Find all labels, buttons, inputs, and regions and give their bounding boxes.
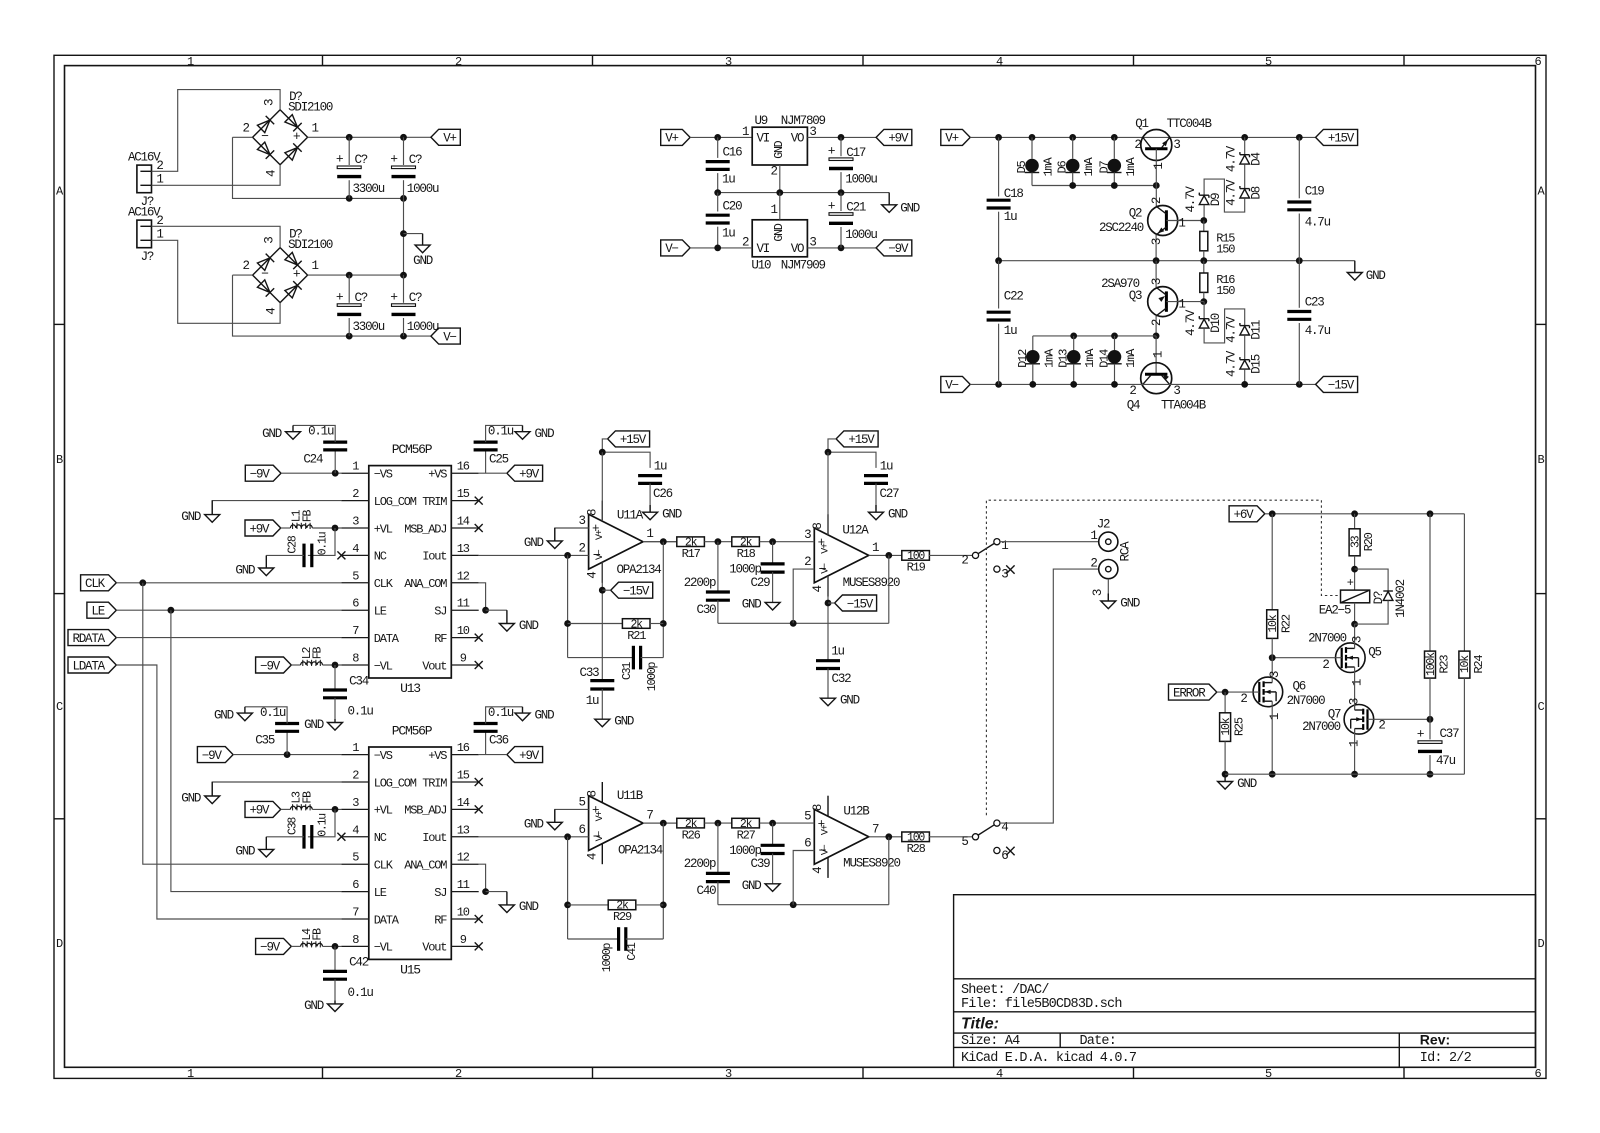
wire U11 noninverting to GND [555,528,589,541]
svg-text:GND: GND [519,619,539,633]
power flag -9V (C35 side) [197,747,233,763]
svg-text:CLK: CLK [374,859,394,873]
ground GND (U11 +in) [547,528,562,549]
wire DAC Iout to U11 inverting input [479,836,589,838]
svg-text:R28: R28 [907,842,926,856]
svg-text:J2: J2 [1097,518,1110,532]
capacitor C27 1u [864,476,888,484]
svg-text:C24: C24 [303,452,323,466]
svg-text:Q2: Q2 [1129,206,1142,220]
wire DAC Iout to U11 inverting input [479,554,589,556]
wire mid GND rail (discrete reg) [999,260,1355,262]
wire +VS pin16 to +9V [479,754,507,756]
svg-text:R29: R29 [613,910,632,924]
ground GND (C27) [869,505,884,520]
junction [715,538,722,545]
svg-text:6: 6 [352,878,359,892]
resistor R21 2k [568,623,623,625]
svg-text:1: 1 [742,125,749,139]
zener D11 4.7V [1240,323,1250,335]
capacitor C25 0.1u [485,450,487,473]
svg-text:GND: GND [614,715,634,729]
wire J2 pin2 to bridge2 pin3 [152,226,281,247]
svg-text:V+: V+ [595,529,606,540]
svg-text:1: 1 [156,173,163,187]
ground GND (C29) [765,602,780,610]
junction [564,902,571,909]
svg-text:2200p: 2200p [684,576,716,590]
svg-text:C27: C27 [880,487,900,501]
svg-text:GND: GND [262,427,282,441]
svg-text:4.7V: 4.7V [1184,186,1198,213]
svg-text:+: + [1347,576,1354,590]
wire RDATA to U13 DATA [116,637,341,639]
svg-text:OPA2134: OPA2134 [616,563,661,577]
resistor R26 2k [677,818,705,828]
svg-text:12: 12 [457,851,470,865]
svg-text:Date:: Date: [1080,1034,1117,1049]
svg-text:TRIM: TRIM [422,776,447,790]
svg-text:R17: R17 [682,547,701,561]
wire J1 pin1 to bridge1 pin4 [152,165,281,186]
svg-text:5: 5 [352,851,359,865]
wire U12 output [869,554,903,556]
svg-text:+9V: +9V [519,749,540,763]
svg-text:SJ: SJ [434,886,446,900]
svg-text:RF: RF [434,913,447,927]
junction [714,245,721,252]
svg-text:1: 1 [352,460,359,474]
junction [769,820,776,827]
svg-text:2: 2 [1150,197,1164,204]
svg-text:LOG_COM: LOG_COM [374,776,417,790]
ground GND (C33) [595,719,610,727]
wire U11 output to R17 [643,541,677,543]
power flag +9V (+VL L3) [245,801,281,817]
svg-text:R19: R19 [907,561,926,575]
svg-text:J?: J? [141,250,154,264]
transistor Q5 2N7000 (MOSFET) [1354,624,1356,643]
capacitor C41 1000p (series) [568,938,619,940]
op-amp U11B OPA2134 [589,796,643,851]
svg-text:3: 3 [1173,138,1180,152]
svg-text:V−: V− [443,330,456,344]
svg-text:U13: U13 [400,681,420,696]
svg-text:ANA_COM: ANA_COM [404,577,447,591]
input label RDATA [68,630,116,646]
svg-text:CLK: CLK [85,577,106,591]
junction [346,272,353,279]
svg-text:EA2−5: EA2−5 [1319,604,1351,618]
svg-text:9: 9 [460,933,467,947]
junction [1069,134,1076,141]
svg-text:3: 3 [1173,384,1180,398]
wire V+ to U9 VI [690,136,752,138]
svg-text:D10: D10 [1209,313,1223,333]
svg-text:MUSES8920: MUSES8920 [843,857,900,871]
svg-text:7: 7 [872,822,879,836]
ground GND (discrete reg) [1347,261,1362,280]
svg-text:KiCad E.D.A. kicad 4.0.7: KiCad E.D.A. kicad 4.0.7 [961,1051,1137,1066]
junction [995,257,1002,264]
svg-text:2N7000: 2N7000 [1287,694,1326,708]
svg-text:4.7V: 4.7V [1184,309,1198,336]
svg-text:D13: D13 [1057,349,1071,368]
svg-text:Sheet: /DAC/: Sheet: /DAC/ [961,983,1049,998]
svg-text:2: 2 [242,259,249,273]
wire bridge1 minus to cap bottom rail [233,136,253,138]
svg-text:2: 2 [352,769,359,783]
svg-text:3: 3 [809,125,816,139]
svg-text:C?: C? [355,291,368,305]
svg-text:R24: R24 [1472,655,1486,674]
svg-text:1: 1 [1351,679,1365,686]
svg-text:0.1u: 0.1u [317,814,330,837]
wire switch throw4 to RCA pin2 [1000,569,1099,823]
svg-text:1: 1 [1178,217,1185,231]
svg-text:D?: D? [1372,591,1386,604]
svg-text:2200p: 2200p [684,857,716,871]
wire Q5 source to Q7 drain [1354,673,1356,711]
svg-text:6: 6 [804,837,811,851]
svg-text:1N4002: 1N4002 [1394,579,1408,618]
power flag +9V (+VS C25) [507,465,543,481]
junction [838,245,845,252]
svg-text:2: 2 [1129,384,1136,398]
svg-text:2: 2 [1240,692,1247,706]
zener D15 4.7V [1244,335,1246,359]
svg-text:2: 2 [242,121,249,135]
svg-text:2: 2 [961,553,968,567]
svg-text:3: 3 [725,55,732,69]
wire ANA_COM pin12 to SJ pin11 [479,864,486,891]
junction [1351,621,1358,628]
svg-text:DATA: DATA [374,632,400,646]
svg-text:1mA: 1mA [1083,348,1097,368]
capacitor C24 0.1u [334,450,336,473]
svg-text:GND: GND [304,718,324,732]
svg-text:SJ: SJ [434,605,446,619]
svg-text:4.7u: 4.7u [1305,324,1331,338]
svg-text:4: 4 [352,542,359,556]
power flag +9V (+VS C36) [507,747,543,763]
power flag +9V (+VL L1) [245,520,281,536]
wire switch throw1 to RCA pin1 [1000,541,1099,543]
svg-text:3: 3 [1348,698,1362,705]
CRD D14 1mA [1114,336,1116,350]
svg-text:FB: FB [312,647,325,660]
ground GND (driver) [1218,774,1233,789]
ferrite bead L1 FB [281,527,291,529]
svg-text:3: 3 [263,237,277,244]
svg-text:C20: C20 [723,199,743,213]
svg-text:R27: R27 [737,828,756,842]
wire center rail to GND and bridge2 [403,198,405,275]
wire ERROR to Q6 gate [1217,691,1260,693]
svg-text:1: 1 [770,203,777,217]
power flag +15V (U11A) [608,431,650,447]
svg-text:GND: GND [235,845,255,859]
svg-text:3: 3 [725,1067,732,1081]
svg-text:1000u: 1000u [407,320,439,334]
svg-text:1: 1 [1152,351,1166,358]
regulator U9 NJM7809 [752,127,807,165]
svg-text:100k: 100k [1425,652,1438,676]
svg-text:−VL: −VL [374,659,393,673]
capacitor C42 0.1u [334,946,336,971]
svg-text:OPA2134: OPA2134 [618,844,663,858]
svg-text:9: 9 [460,652,467,666]
capacitor C17 1000u [840,137,842,156]
junction [400,134,407,141]
svg-text:Vout: Vout [422,941,446,955]
svg-text:GND: GND [900,201,920,215]
junction [1222,689,1229,696]
transistor Q1 TTC004B [1141,130,1172,161]
transistor Q7 2N7000 (MOSFET, mirrored) [1344,705,1374,735]
svg-text:−15V: −15V [847,597,874,611]
svg-text:File: file5B0CD83D.sch: File: file5B0CD83D.sch [961,997,1122,1012]
svg-text:+15V: +15V [848,433,875,447]
svg-text:D: D [1537,937,1544,951]
svg-text:VO: VO [791,132,804,146]
svg-text:16: 16 [457,460,470,474]
ferrite bead L2 FB [291,664,300,666]
wire bridge2 plus rail [308,274,404,276]
svg-text:V−: V− [945,379,958,393]
connector J2 RCA [1099,532,1118,551]
resistor R15 150 [1203,221,1205,232]
capacitor C22 1u [998,261,1000,309]
svg-text:1mA: 1mA [1124,157,1138,177]
svg-text:8: 8 [811,804,825,811]
resistor R16 150 [1203,261,1205,273]
svg-text:8: 8 [352,933,359,947]
wire LE vertical to U15 [171,610,342,891]
wire D8 to D9 staircase [1204,179,1245,212]
svg-text:C32: C32 [832,672,852,686]
svg-text:3: 3 [263,99,277,106]
junction [332,662,339,669]
svg-text:−15V: −15V [623,585,650,599]
svg-text:−VS: −VS [374,468,393,482]
svg-text:GND: GND [1366,269,1386,283]
svg-text:U15: U15 [400,963,420,978]
svg-text:16: 16 [457,741,470,755]
svg-text:U11B: U11B [617,789,644,803]
power flag -15V (U11A) [611,582,653,598]
capacitor C20 1u [717,193,719,212]
wire J1 pin2 to bridge1 pin3 [152,90,281,172]
junction [1269,771,1276,778]
junction [482,607,489,614]
wire SJ to GND [486,891,507,893]
svg-text:C42: C42 [349,956,369,970]
svg-text:7: 7 [352,906,359,920]
junction [1296,257,1303,264]
svg-text:15: 15 [457,769,470,783]
svg-text:B: B [56,453,63,467]
svg-text:1: 1 [156,228,163,242]
svg-text:V−: V− [595,831,606,842]
title block [954,895,1536,1068]
junction [482,888,489,895]
junction [332,470,339,477]
junction [1070,381,1077,388]
ground GND (SJ) [499,892,514,913]
svg-text:2N7000: 2N7000 [1308,632,1347,646]
svg-text:C34: C34 [349,674,369,688]
wire Q1 collector to Q2 [1155,186,1157,207]
svg-text:NJM7909: NJM7909 [781,258,826,272]
svg-text:Size: A4: Size: A4 [961,1034,1020,1049]
svg-text:C39: C39 [751,857,771,871]
svg-text:VI: VI [757,242,770,256]
wire D10 to D11 staircase [1204,309,1245,343]
svg-text:3: 3 [352,796,359,810]
svg-text:10: 10 [457,906,470,920]
svg-text:2: 2 [1150,319,1164,326]
resistor R22 10k [1271,514,1273,610]
svg-text:11: 11 [457,597,470,611]
svg-text:D9: D9 [1209,193,1223,206]
svg-text:GND: GND [181,791,201,805]
connector J? (AC16V lower) [137,220,152,248]
IC U15 PCM56P [369,747,452,959]
svg-text:3: 3 [1001,568,1008,582]
svg-text:D14: D14 [1098,349,1112,368]
wire U9 VO to +9V [807,136,876,138]
CRD D6 1mA [1072,137,1074,158]
svg-text:12: 12 [457,569,470,583]
regulator U10 NJM7909 [752,220,807,257]
svg-text:GND: GND [742,879,762,893]
svg-text:1u: 1u [1004,210,1017,224]
capacitor C19 4.7u [1298,137,1300,198]
power flag V+ [431,129,460,145]
svg-text:0.1u: 0.1u [348,705,374,719]
ground GND (C34) [328,1000,343,1011]
op-amp U12B MUSES8920 [814,809,868,864]
wire R22 node to Q6 drain [1271,658,1273,678]
svg-text:2: 2 [804,555,811,569]
power flag V- [431,328,460,344]
wire J2 pin1 to bridge2 pin4 [152,240,281,323]
junction [769,538,776,545]
junction [1351,771,1358,778]
op-amp U12A MUSES8920 [814,528,868,583]
CRD D7 1mA [1113,137,1115,158]
svg-text:RF: RF [434,632,447,646]
svg-text:0.1u: 0.1u [308,425,334,439]
svg-text:5: 5 [961,835,968,849]
svg-text:VI: VI [757,132,770,146]
svg-text:C23: C23 [1305,296,1325,310]
svg-text:V−: V− [821,844,832,855]
svg-text:MUSES8920: MUSES8920 [843,576,900,590]
junction [825,449,832,456]
svg-text:DATA: DATA [374,913,400,927]
resistor R19 100 [902,551,930,561]
svg-text:C31: C31 [621,662,634,680]
svg-text:C22: C22 [1004,290,1024,304]
svg-text:8: 8 [352,652,359,666]
junction [838,134,845,141]
junction [1427,716,1434,723]
transistor Q4 TTA004B [1155,336,1157,374]
svg-text:C: C [56,700,63,714]
resistor R29 2k [568,904,609,906]
input label LE [87,602,116,618]
svg-text:1: 1 [1090,529,1097,543]
svg-text:NC: NC [374,831,387,845]
svg-text:U12A: U12A [842,524,869,538]
switch SW1 (upper, relay contact) [972,552,978,558]
svg-text:2: 2 [1322,658,1329,672]
ground GND (C28) [259,555,274,575]
svg-text:NC: NC [374,550,387,564]
svg-text:3: 3 [809,235,816,249]
capacitor C23 4.7u [1298,261,1300,308]
svg-text:4.7V: 4.7V [1225,179,1239,206]
svg-text:2N7000: 2N7000 [1302,720,1341,734]
svg-text:1000u: 1000u [845,173,877,187]
svg-text:V−: V− [665,242,678,256]
wire +VS pin16 to +9V [479,472,507,474]
svg-text:D7: D7 [1097,161,1111,174]
svg-text:GND: GND [304,999,324,1013]
svg-text:C: C [1537,700,1544,714]
svg-text:−9V: −9V [260,659,281,673]
input label CLK [81,575,117,591]
wire output junction down to rail [888,555,890,623]
junction [346,195,353,202]
svg-text:B: B [1537,453,1544,467]
junction [660,620,667,627]
svg-text:8: 8 [586,790,600,797]
svg-text:+VS: +VS [428,468,447,482]
svg-text:+VL: +VL [374,804,393,818]
svg-text:GND: GND [840,694,860,708]
svg-text:C25: C25 [489,452,509,466]
svg-text:10: 10 [457,624,470,638]
connector J? (AC16V upper) [137,165,152,193]
wire pin8 column U12A [827,452,829,535]
svg-text:0.1u: 0.1u [488,706,514,720]
svg-text:2: 2 [770,165,777,179]
svg-text:GND: GND [535,708,555,722]
power flag -9V (-VL L2) [256,657,292,673]
svg-text:C33: C33 [580,666,600,680]
svg-text:C36: C36 [489,734,509,748]
capacitor C? 1000u (upper) [403,137,405,165]
svg-text:4.7V: 4.7V [1225,316,1239,343]
input label ERROR [1169,684,1217,700]
svg-text:3: 3 [1268,671,1282,678]
ground GND (C28) [259,837,274,857]
op-amp U11A OPA2134 [589,514,643,569]
wire CLK vertical to U15 [143,583,342,864]
svg-text:4.7V: 4.7V [1225,145,1239,172]
svg-text:4: 4 [586,853,600,860]
svg-text:1: 1 [1152,163,1166,170]
svg-text:+15V: +15V [620,433,647,447]
svg-text:2: 2 [455,55,462,69]
junction [714,134,721,141]
svg-text:V+: V+ [443,132,456,146]
junction [332,943,339,950]
junction [776,189,783,196]
